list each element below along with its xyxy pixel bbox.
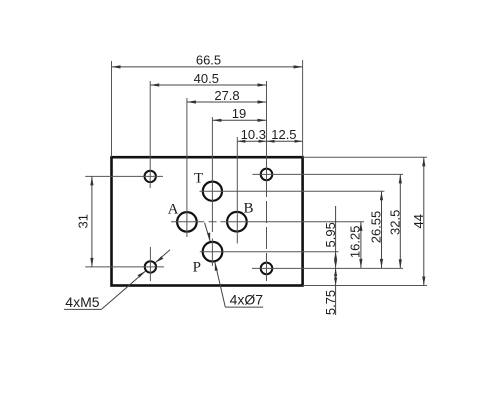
svg-text:44: 44 [411,214,426,228]
centerline horizontal A and B ports [171,221,364,223]
dimension 27.8 [187,100,267,103]
port B [227,212,247,232]
mounting hole bottom-left [145,261,156,272]
centerline vertical through A port [186,98,188,237]
svg-text:27.8: 27.8 [214,88,239,103]
dimension 26.55 [380,191,383,268]
dimension 10.3 [237,140,266,143]
dimension 16.25 [359,222,362,268]
dimension 66.5 [112,65,303,68]
dimension 5.75 [334,268,337,315]
svg-text:P: P [193,260,201,276]
centerline vertical top-left hole [149,81,151,188]
centerline horizontal T port [200,190,385,192]
dimension 40.5 [150,83,266,86]
dimension 12.5 [267,140,303,143]
svg-text:5.75: 5.75 [323,290,338,315]
svg-text:31: 31 [76,214,91,228]
leader 4xO7 [205,223,264,307]
centerline horizontal bottom-right hole [252,267,403,269]
svg-text:26.55: 26.55 [368,211,383,244]
dimension 5.95 [334,206,337,268]
centerline horizontal P port [200,251,339,253]
plate outline [112,157,303,285]
mounting hole top-right [261,169,273,181]
svg-text:T: T [194,170,203,186]
leader 4xM5 [64,250,170,310]
svg-text:4xM5: 4xM5 [65,294,99,310]
svg-text:19: 19 [232,106,246,121]
svg-text:5.95: 5.95 [323,222,338,247]
port A [177,212,197,232]
dimension 19 [212,119,266,122]
svg-text:A: A [168,201,179,217]
dimension 44 [422,157,425,285]
centerline vertical through B port [236,137,238,244]
plate bottom edge extension right [303,285,427,287]
extension line right plate edge top [302,60,304,157]
mounting hole bottom-right [261,263,273,275]
centerline horizontal bottom-left hole [85,266,164,268]
dimension 32.5 [399,174,402,268]
svg-text:66.5: 66.5 [196,53,221,68]
port P [203,242,223,262]
svg-text:4xØ7: 4xØ7 [230,291,264,307]
dimension 31 [90,176,93,267]
svg-text:10.3: 10.3 [241,127,266,142]
svg-text:12.5: 12.5 [271,127,296,142]
mounting hole top-left [145,171,156,182]
centerline horizontal top-left hole [85,175,163,177]
extension line left plate edge top [111,61,113,157]
svg-text:40.5: 40.5 [194,71,219,86]
svg-text:32.5: 32.5 [387,210,402,235]
port T [203,182,222,201]
centerline vertical bottom-left hole [149,247,151,281]
svg-text:16.25: 16.25 [348,226,363,259]
plate top edge extension right [303,156,427,158]
centerline horizontal top-right hole [252,173,403,175]
centerline vertical through T and P ports [211,117,213,266]
svg-text:B: B [243,200,253,216]
centerline vertical through right mounting holes [266,81,268,281]
